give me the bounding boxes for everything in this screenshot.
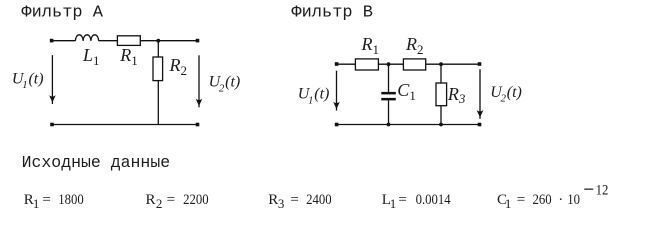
node A-out-top bbox=[196, 39, 200, 43]
value R1 = 1800 bbox=[24, 192, 84, 211]
wire node to output top bbox=[158, 40, 197, 42]
svg-text:R3: R3 bbox=[447, 84, 466, 106]
resistor R2 (B) bbox=[403, 59, 425, 70]
svg-text:12: 12 bbox=[596, 182, 609, 198]
node B-out-bottom bbox=[478, 123, 482, 127]
node A-in-top bbox=[50, 39, 54, 43]
junction R3 bottom bbox=[439, 123, 443, 127]
node B-in-top bbox=[335, 62, 339, 66]
svg-text:=: = bbox=[42, 192, 50, 208]
svg-text:1800: 1800 bbox=[58, 192, 84, 208]
svg-text:10: 10 bbox=[567, 192, 580, 208]
svg-text:2: 2 bbox=[156, 196, 163, 211]
svg-text:Фильтр А: Фильтр А bbox=[21, 3, 103, 22]
wire R1 to node C bbox=[378, 63, 403, 65]
wire R2 to output bbox=[426, 63, 480, 65]
node B-mid1 junction bbox=[387, 62, 391, 66]
wire junction down to R2 bbox=[157, 41, 159, 57]
wire input to R1 bbox=[337, 63, 356, 65]
inductor L1 bbox=[75, 35, 98, 41]
node B-mid2 junction bbox=[439, 62, 443, 66]
resistor R1 (B) bbox=[355, 59, 378, 70]
value C1 = 260e-12 bbox=[497, 182, 608, 210]
svg-text:0.0014: 0.0014 bbox=[416, 192, 451, 208]
capacitor C1 plates bbox=[381, 92, 396, 101]
svg-text:R1: R1 bbox=[361, 34, 380, 57]
node A-mid junction bbox=[156, 39, 160, 43]
svg-text:2200: 2200 bbox=[183, 192, 209, 208]
arrow U1(t) B bbox=[333, 71, 340, 111]
wire R1 to node bbox=[140, 40, 158, 42]
resistor R1 (A) bbox=[117, 36, 140, 46]
value R2 = 2200 bbox=[146, 192, 209, 211]
wire R3 to bottom bbox=[440, 106, 442, 125]
svg-text:=: = bbox=[398, 192, 406, 208]
svg-text:U1(t): U1(t) bbox=[298, 86, 330, 107]
svg-text:=: = bbox=[517, 192, 525, 208]
svg-text:R: R bbox=[268, 192, 278, 208]
wire node to C1 top bbox=[388, 64, 390, 92]
wire C1 bottom to rail bbox=[388, 100, 390, 124]
node B-in-bottom bbox=[335, 123, 339, 127]
svg-text:1: 1 bbox=[390, 196, 397, 211]
svg-text:1: 1 bbox=[33, 196, 40, 211]
svg-text:U1(t): U1(t) bbox=[12, 70, 44, 91]
wire bottom A bbox=[52, 124, 198, 126]
arrow U2(t) A bbox=[196, 55, 203, 107]
svg-text:=: = bbox=[290, 192, 298, 208]
wire input to L1 bbox=[52, 40, 75, 42]
svg-text:1: 1 bbox=[505, 196, 512, 211]
wire R2 to bottom bbox=[157, 81, 159, 125]
node A-in-bottom bbox=[50, 123, 54, 127]
value R3 = 2400 bbox=[268, 192, 331, 211]
resistor R2 (A) bbox=[153, 57, 163, 81]
arrow U2(t) B bbox=[477, 69, 484, 119]
wire bottom B bbox=[337, 124, 480, 126]
svg-text:Исходные данные: Исходные данные bbox=[22, 153, 171, 172]
svg-text:R2: R2 bbox=[405, 34, 424, 57]
node A-out-bottom bbox=[196, 123, 200, 127]
svg-text:R: R bbox=[146, 192, 156, 208]
svg-text:U2(t): U2(t) bbox=[490, 84, 522, 105]
svg-text:3: 3 bbox=[278, 196, 285, 211]
value L1 = 0.0014 bbox=[382, 192, 451, 211]
junction C1 bottom bbox=[387, 123, 391, 127]
wire L1 to R1 bbox=[99, 40, 118, 42]
svg-text:Фильтр В: Фильтр В bbox=[291, 3, 373, 22]
node B-out-top bbox=[478, 62, 482, 66]
svg-text:R2: R2 bbox=[169, 55, 188, 78]
svg-text:L1: L1 bbox=[82, 45, 100, 68]
svg-text:260: 260 bbox=[533, 192, 552, 208]
svg-text:R1: R1 bbox=[119, 45, 138, 68]
svg-text:·: · bbox=[558, 192, 563, 208]
resistor R3 (B) bbox=[436, 83, 447, 106]
svg-text:C1: C1 bbox=[397, 80, 416, 103]
svg-text:2400: 2400 bbox=[306, 192, 332, 208]
arrow U1(t) A bbox=[49, 55, 56, 104]
wire node2 down to R3 bbox=[440, 64, 442, 83]
svg-text:U2(t): U2(t) bbox=[209, 74, 241, 95]
svg-text:=: = bbox=[167, 192, 175, 208]
